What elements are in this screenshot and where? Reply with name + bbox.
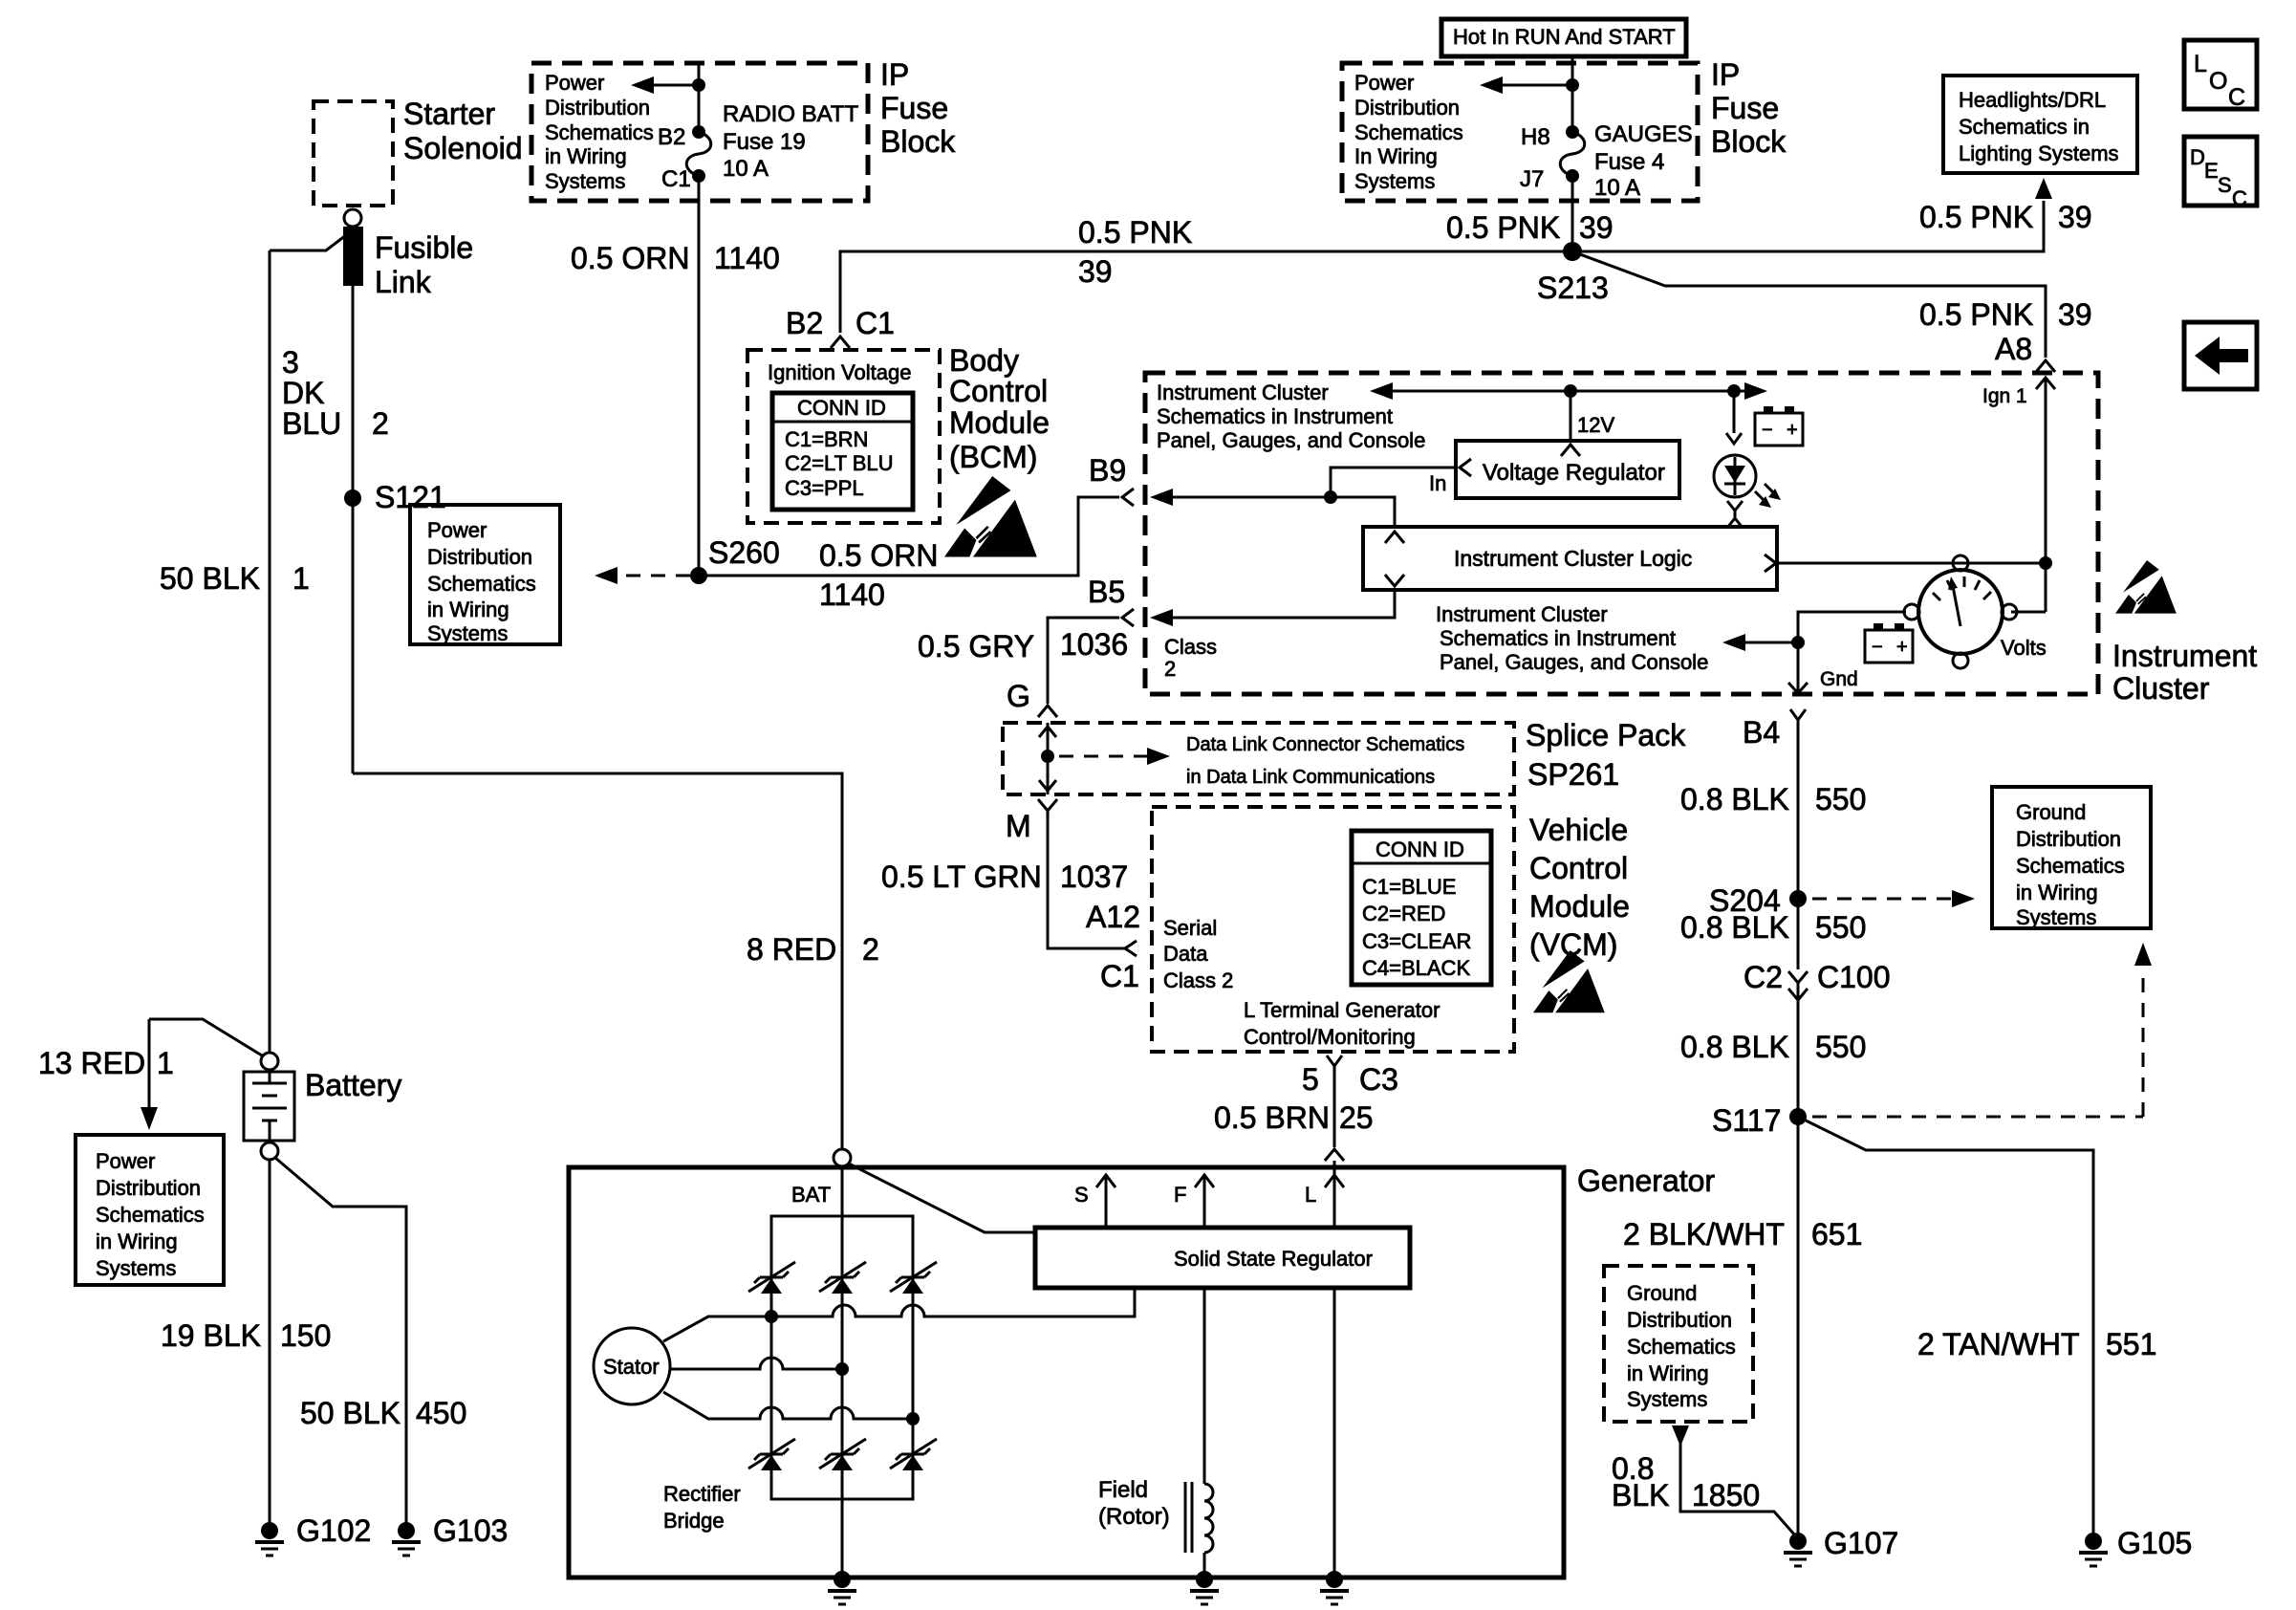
svg-text:1850: 1850 (1692, 1478, 1760, 1512)
svg-text:Schematics in: Schematics in (1959, 115, 2090, 139)
svg-text:C1=BRN: C1=BRN (785, 427, 868, 451)
svg-text:0.5 PNK: 0.5 PNK (1919, 200, 2033, 234)
wire 0.8 BLK 1850 (ground dist to G107) (1612, 1425, 1795, 1535)
svg-text:550: 550 (1815, 910, 1866, 945)
connector below LED (1727, 501, 1743, 528)
ESD symbol (instrument cluster) (2115, 560, 2177, 614)
svg-text:0.8 BLK: 0.8 BLK (1680, 782, 1789, 816)
fuse 19 (RADIO BATT 10A) (658, 101, 859, 192)
svg-text:12V: 12V (1577, 413, 1614, 437)
svg-text:550: 550 (1815, 782, 1866, 816)
svg-text:C4=BLACK: C4=BLACK (1362, 956, 1470, 980)
svg-text:0.5 ORN: 0.5 ORN (571, 241, 689, 275)
svg-text:C3=CLEAR: C3=CLEAR (1362, 929, 1471, 953)
svg-text:L: L (2194, 51, 2207, 77)
power distribution schematics box (S260) (410, 505, 560, 645)
svg-text:SP261: SP261 (1527, 757, 1619, 792)
svg-text:Field: Field (1098, 1477, 1148, 1503)
stator winding middle wire (670, 1358, 849, 1376)
ESD symbol (VCM) (1533, 950, 1605, 1012)
svg-text:Ign 1: Ign 1 (1982, 385, 2027, 407)
svg-text:C: C (2228, 84, 2245, 111)
svg-text:B2: B2 (786, 306, 823, 340)
svg-text:S260: S260 (708, 535, 780, 570)
svg-text:50 BLK: 50 BLK (160, 561, 260, 596)
starter solenoid terminal (344, 209, 361, 227)
svg-text:in Wiring: in Wiring (545, 144, 627, 168)
svg-text:C1=BLUE: C1=BLUE (1362, 875, 1456, 899)
svg-text:13 RED: 13 RED (38, 1046, 145, 1080)
wire volts gauge left terminal to Gnd (1798, 612, 1906, 691)
connector ICL bottom (1385, 575, 1404, 586)
svg-text:Starter: Starter (403, 97, 495, 131)
wire 2 TAN/WHT 551 (S117 to G105) (1798, 1117, 2156, 1533)
splice pack internal wire (1039, 723, 1056, 794)
wire 2 BLK/WHT 651 (S117 to G107) (1623, 1117, 1862, 1533)
LED telltale indicator (1714, 455, 1781, 508)
wire BAT center line (841, 1166, 844, 1577)
svg-text:in Wiring: in Wiring (2016, 881, 2098, 904)
svg-text:C: C (2232, 186, 2247, 210)
svg-text:(BCM): (BCM) (949, 440, 1037, 474)
svg-text:C2: C2 (1744, 960, 1783, 994)
wire to volts gauge right terminal (2011, 611, 2046, 614)
connector B5 (1122, 609, 1134, 626)
svg-text:+: + (1787, 420, 1798, 441)
ground distribution schematics box (bottom) (1604, 1266, 1753, 1422)
svg-text:L: L (1305, 1183, 1316, 1207)
svg-text:Generator: Generator (1577, 1164, 1715, 1198)
svg-text:J7: J7 (1520, 166, 1544, 192)
svg-text:A12: A12 (1086, 900, 1140, 934)
svg-text:0.5 LT GRN: 0.5 LT GRN (881, 859, 1042, 894)
svg-text:B9: B9 (1089, 453, 1126, 488)
back arrow box (2184, 322, 2257, 389)
svg-text:GAUGES: GAUGES (1594, 121, 1693, 147)
svg-text:IP: IP (1711, 57, 1740, 92)
node at fuse 4 feed (1566, 78, 1579, 92)
svg-text:39: 39 (2058, 200, 2092, 234)
svg-text:(Rotor): (Rotor) (1098, 1504, 1170, 1530)
wire BAT to solid state regulator (849, 1164, 1035, 1232)
svg-text:Fuse: Fuse (1711, 91, 1779, 125)
wire 0.5 PNK 39 (S213 to BCM) (840, 215, 1572, 333)
dashed wire S117 to ground distribution (1812, 943, 2152, 1117)
wire 3 DK BLU 2 (link to S121) (352, 286, 355, 773)
node S213 (1537, 242, 1609, 305)
svg-text:Distribution: Distribution (1627, 1308, 1732, 1332)
svg-text:RADIO BATT: RADIO BATT (723, 101, 859, 127)
connector G (1038, 706, 1057, 717)
svg-text:Headlights/DRL: Headlights/DRL (1959, 88, 2106, 112)
svg-text:1140: 1140 (819, 577, 885, 612)
zener diode top middle (819, 1262, 866, 1294)
connector 5 C3 (1302, 1055, 1398, 1097)
svg-text:0.5 PNK: 0.5 PNK (1078, 215, 1192, 250)
svg-text:G102: G102 (296, 1513, 371, 1548)
wire 0.5 ORN 1140 (fuse 19 to S260) (571, 176, 780, 576)
svg-text:Systems: Systems (1354, 169, 1435, 193)
node S260 (690, 535, 780, 584)
svg-text:0.8 BLK: 0.8 BLK (1680, 1030, 1789, 1064)
svg-text:Panel, Gauges, and Console: Panel, Gauges, and Console (1157, 428, 1425, 452)
svg-text:C1: C1 (856, 306, 895, 340)
IP fuse block 2 (dashed box) (1342, 57, 1787, 201)
svg-text:Systems: Systems (427, 621, 508, 645)
node ICL output to volts gauge (2039, 556, 2052, 570)
svg-text:0.5 GRY: 0.5 GRY (918, 629, 1034, 664)
ground distribution schematics box (right) (1992, 787, 2151, 929)
svg-text:Instrument: Instrument (2112, 639, 2257, 673)
svg-text:Link: Link (375, 265, 432, 299)
svg-text:39: 39 (1078, 254, 1113, 289)
svg-text:A8: A8 (1995, 332, 2032, 366)
svg-text:Fuse 4: Fuse 4 (1594, 149, 1664, 175)
svg-text:L Terminal Generator: L Terminal Generator (1244, 998, 1440, 1022)
wire hot feed stub (1571, 56, 1574, 132)
node SP261 junction (1041, 750, 1054, 763)
wire 0.5 PNK 39 (S213 to headlights) (1572, 178, 2092, 251)
svg-text:1: 1 (157, 1046, 174, 1080)
wire ICL to BCM B5 (Class 2) (1150, 589, 1395, 681)
svg-text:DK: DK (282, 376, 324, 410)
svg-text:in Wiring: in Wiring (96, 1229, 178, 1253)
svg-text:39: 39 (1579, 210, 1614, 245)
wire ignition feed double arrow inside cluster (1370, 382, 1767, 400)
svg-text:Block: Block (1711, 124, 1787, 159)
dashed arrow S204 to ground distribution (1812, 890, 1975, 907)
wire 0.5 GRY 1036 (BCM B5 to splice pack G) (918, 618, 1128, 713)
battery telltale icon (lower) (1865, 623, 1913, 663)
svg-text:150: 150 (280, 1318, 331, 1353)
connector ICL right (1765, 555, 1776, 572)
svg-text:in Data Link Communications: in Data Link Communications (1186, 767, 1435, 788)
node telltale feed (1727, 384, 1741, 398)
volts gauge (1904, 555, 2047, 668)
ground G107 (1784, 1526, 1898, 1566)
svg-text:1140: 1140 (714, 241, 780, 275)
svg-text:Voltage Regulator: Voltage Regulator (1483, 460, 1665, 486)
svg-text:Data: Data (1163, 942, 1208, 966)
node S117 (1712, 1103, 1807, 1138)
stator winding bottom wire (663, 1392, 920, 1425)
svg-text:Body: Body (949, 343, 1019, 378)
arrow to power distribution (fuse block 2) (1480, 76, 1572, 94)
svg-text:1037: 1037 (1060, 859, 1128, 894)
svg-text:Systems: Systems (545, 169, 625, 193)
svg-text:2: 2 (862, 932, 879, 967)
svg-text:B2: B2 (658, 124, 685, 150)
connector above telltale (1726, 433, 1742, 444)
svg-text:Systems: Systems (96, 1256, 176, 1280)
wire BCM B9 to ICL and VR In (1150, 468, 1457, 529)
instrument cluster label (2112, 639, 2257, 706)
node gnd branch (1791, 636, 1805, 649)
wire to telltale (1733, 391, 1736, 433)
svg-text:H8: H8 (1521, 124, 1550, 150)
svg-text:2 BLK/WHT: 2 BLK/WHT (1623, 1217, 1785, 1251)
svg-text:Solenoid: Solenoid (403, 131, 523, 165)
svg-text:In: In (1429, 471, 1446, 495)
instrument cluster logic (1363, 527, 1777, 590)
svg-text:Gnd: Gnd (1820, 668, 1858, 690)
svg-text:S117: S117 (1712, 1103, 1781, 1138)
pin F (1174, 1174, 1214, 1228)
solid state regulator (1035, 1228, 1410, 1288)
zener diode bottom right (890, 1439, 937, 1470)
svg-text:Splice Pack: Splice Pack (1526, 718, 1686, 752)
svg-text:Hot In RUN And START: Hot In RUN And START (1453, 25, 1676, 49)
node at 12V (1564, 384, 1577, 398)
svg-text:25: 25 (1339, 1100, 1374, 1135)
svg-text:Class 2: Class 2 (1163, 968, 1233, 992)
ground (L circuit) (1320, 1571, 1349, 1604)
generator box (569, 1164, 1715, 1577)
Hot In RUN And START box (1441, 19, 1686, 56)
ground G102 (255, 1513, 371, 1556)
Gnd arrow at cluster border (1788, 668, 1858, 693)
svg-text:In Wiring: In Wiring (1354, 144, 1438, 168)
svg-text:0.8 BLK: 0.8 BLK (1680, 910, 1789, 945)
svg-text:Power: Power (96, 1149, 155, 1173)
svg-text:Schematics in Instrument: Schematics in Instrument (1157, 404, 1393, 428)
svg-text:BLU: BLU (282, 406, 341, 441)
svg-text:G: G (1007, 679, 1030, 713)
svg-text:1: 1 (292, 561, 310, 596)
svg-text:Class: Class (1164, 635, 1217, 659)
svg-text:10 A: 10 A (723, 156, 769, 182)
svg-text:1036: 1036 (1060, 627, 1128, 662)
svg-text:BLK: BLK (1612, 1478, 1669, 1512)
svg-text:Schematics: Schematics (545, 120, 654, 144)
svg-text:Distribution: Distribution (1354, 96, 1460, 120)
svg-text:Cluster: Cluster (2112, 671, 2210, 706)
instrument cluster reference text (lower) (1436, 602, 1708, 674)
svg-text:450: 450 (416, 1396, 466, 1430)
svg-text:Power: Power (427, 518, 487, 542)
svg-text:S213: S213 (1537, 271, 1609, 305)
pin L (1305, 1174, 1344, 1228)
svg-text:Power: Power (545, 71, 604, 95)
connector at voltage regulator top (1561, 445, 1580, 456)
vehicle control module VCM (dashed box) (1152, 807, 1630, 1052)
svg-text:Power: Power (1354, 71, 1414, 95)
svg-text:10 A: 10 A (1594, 175, 1640, 201)
svg-text:Volts: Volts (2001, 636, 2047, 660)
svg-text:Distribution: Distribution (427, 545, 532, 569)
svg-text:Instrument Cluster: Instrument Cluster (1436, 602, 1608, 626)
node S121 (344, 480, 446, 514)
ground (field) (1190, 1571, 1219, 1604)
LOC box (2184, 40, 2257, 111)
svg-text:Fusible: Fusible (375, 230, 473, 265)
zener diode bottom middle (819, 1439, 866, 1470)
battery telltale icon (upper) (1755, 406, 1803, 446)
svg-text:19 BLK: 19 BLK (161, 1318, 261, 1353)
svg-text:Distribution: Distribution (96, 1176, 201, 1200)
power distribution schematics box (battery area) (76, 1135, 224, 1285)
svg-text:in Wiring: in Wiring (1627, 1361, 1709, 1385)
svg-text:651: 651 (1811, 1217, 1862, 1251)
fusible link (343, 227, 473, 299)
svg-text:C1: C1 (661, 166, 691, 192)
svg-text:Bridge: Bridge (663, 1509, 725, 1533)
svg-text:2: 2 (1164, 657, 1176, 681)
svg-text:C3=PPL: C3=PPL (785, 476, 864, 500)
svg-text:S: S (1074, 1183, 1089, 1207)
connector A12 C1 (1086, 900, 1140, 993)
svg-text:G105: G105 (2117, 1526, 2192, 1560)
wire 0.5 PNK 39 (fuse 4 to S213) (1446, 176, 1614, 251)
svg-text:5: 5 (1302, 1062, 1319, 1097)
svg-text:Module: Module (949, 405, 1050, 440)
svg-text:Ignition Voltage: Ignition Voltage (768, 360, 911, 384)
svg-text:0.5 PNK: 0.5 PNK (1919, 297, 2033, 332)
dashed arrow S260 to power distribution box (595, 567, 690, 584)
svg-text:C3: C3 (1359, 1062, 1398, 1097)
ESD symbol (BCM) (944, 476, 1037, 556)
svg-text:−: − (1872, 637, 1883, 658)
svg-text:B4: B4 (1743, 715, 1780, 750)
arrow to power distribution (fuse block 1) (631, 76, 699, 94)
svg-text:Ground: Ground (1627, 1281, 1697, 1305)
instrument cluster (dashed box) (1145, 373, 2098, 694)
svg-text:D: D (2190, 145, 2205, 169)
wire fuse 19 feed stub (698, 63, 701, 132)
svg-text:Distribution: Distribution (2016, 827, 2121, 851)
svg-text:Systems: Systems (2016, 905, 2096, 929)
BCM CONN ID table (772, 393, 913, 510)
ground G105 (2079, 1526, 2192, 1566)
BAT terminal (791, 1149, 851, 1207)
svg-text:Stator: Stator (603, 1355, 660, 1379)
rectifier bridge frame (663, 1216, 913, 1533)
ground (rectifier bridge) (828, 1571, 856, 1604)
connector A8 (2036, 360, 2055, 372)
connector B2 C1 at BCM (786, 306, 895, 348)
svg-text:B5: B5 (1088, 575, 1125, 609)
svg-text:Instrument Cluster: Instrument Cluster (1157, 381, 1329, 404)
connector M (1006, 799, 1057, 843)
body control module BCM (dashed box) (747, 343, 1050, 523)
svg-text:0.5 ORN: 0.5 ORN (819, 538, 938, 573)
field rotor coil (1098, 1288, 1213, 1577)
node at fuse 19 feed (692, 78, 705, 92)
svg-text:Block: Block (880, 124, 956, 159)
wire 0.8 BLK 550 (S204 to C100) (1680, 899, 1866, 969)
svg-text:Schematics: Schematics (1354, 120, 1463, 144)
svg-text:Vehicle: Vehicle (1529, 813, 1628, 847)
stator winding top wire to regulator (663, 1288, 1135, 1341)
svg-text:Rectifier: Rectifier (663, 1482, 741, 1506)
svg-text:Battery: Battery (305, 1068, 401, 1102)
svg-text:Schematics: Schematics (96, 1203, 205, 1227)
svg-text:M: M (1006, 809, 1031, 843)
node S204 (1709, 883, 1807, 918)
svg-text:Instrument Cluster Logic: Instrument Cluster Logic (1454, 546, 1692, 571)
svg-text:50 BLK: 50 BLK (300, 1396, 401, 1430)
svg-text:C100: C100 (1817, 960, 1891, 994)
svg-text:Data Link Connector Schematics: Data Link Connector Schematics (1186, 734, 1464, 755)
svg-text:Serial: Serial (1163, 916, 1217, 940)
wire ICL to Ign1 line (1777, 562, 2046, 565)
zener diode top left (748, 1262, 795, 1294)
wire 0.5 BRN 25 (VCM to generator L) (1214, 1066, 1374, 1147)
svg-text:39: 39 (2058, 297, 2092, 332)
starter solenoid (dashed box) (314, 97, 523, 206)
svg-text:IP: IP (880, 57, 909, 92)
svg-text:Fuse 19: Fuse 19 (723, 129, 806, 155)
svg-text:G103: G103 (433, 1513, 508, 1548)
svg-text:Control: Control (1529, 851, 1628, 885)
svg-text:551: 551 (2106, 1327, 2156, 1361)
splice pack SP261 (dashed box) (1003, 718, 1686, 794)
svg-text:E: E (2204, 159, 2219, 183)
wire 13 RED 1 with arrow to power distribution (38, 1019, 262, 1130)
svg-text:Panel, Gauges, and Console: Panel, Gauges, and Console (1440, 650, 1708, 674)
wire 0.5 PNK 39 (S213 to instrument cluster A8) (1572, 251, 2092, 366)
wire 0.5 ORN 1140 (S260 to BCM B9) (699, 497, 1119, 612)
dashed arrow to data link connector schematics (1059, 734, 1464, 788)
wire 8 RED 2 (S121 to generator BAT) (353, 773, 879, 1149)
zener diode top right (890, 1262, 937, 1294)
svg-text:C2=RED: C2=RED (1362, 902, 1445, 925)
headlights/DRL schematics box (1943, 76, 2137, 173)
DESC box (2184, 137, 2257, 210)
ground G103 (392, 1513, 508, 1556)
connector B9 (1122, 489, 1134, 506)
wire 0.5 LT GRN 1037 (SP261 to VCM A12) (881, 811, 1128, 948)
svg-text:Systems: Systems (1627, 1387, 1707, 1411)
wire fusible link tap to battery column (270, 235, 346, 250)
svg-text:O: O (2209, 68, 2227, 95)
svg-text:BAT: BAT (791, 1183, 831, 1207)
svg-text:Ground: Ground (2016, 800, 2086, 824)
svg-text:2 TAN/WHT: 2 TAN/WHT (1917, 1327, 2079, 1361)
svg-text:G107: G107 (1824, 1526, 1898, 1560)
voltage regulator (1456, 441, 1679, 498)
svg-text:C1: C1 (1100, 959, 1139, 993)
zener diode bottom left (748, 1439, 795, 1470)
wire L to generator ground (1333, 1288, 1336, 1577)
svg-text:S: S (2218, 173, 2232, 197)
wire Ign 1 (A8 into cluster) (1982, 378, 2055, 612)
fuse 4 (GAUGES 10A) (1520, 121, 1693, 201)
svg-text:C2=LT BLU: C2=LT BLU (785, 451, 894, 475)
connector at generator L (1325, 1149, 1344, 1161)
svg-text:Schematics: Schematics (427, 572, 536, 596)
svg-text:CONN ID: CONN ID (1375, 838, 1464, 861)
wire 50 BLK 1 (battery feed vertical) (269, 250, 271, 1053)
wire B4 550 (cluster Gnd to S204) (1680, 709, 1866, 892)
wire into generator L pin (1333, 1161, 1336, 1174)
connector In (1429, 459, 1471, 495)
svg-text:Schematics: Schematics (1627, 1335, 1736, 1359)
svg-text:Control/Monitoring: Control/Monitoring (1244, 1025, 1416, 1049)
svg-text:Distribution: Distribution (545, 96, 650, 120)
svg-text:Solid State Regulator: Solid State Regulator (1174, 1247, 1373, 1271)
battery (244, 1053, 401, 1160)
svg-text:3: 3 (282, 345, 299, 380)
svg-text:Schematics in Instrument: Schematics in Instrument (1440, 626, 1676, 650)
svg-text:CONN ID: CONN ID (797, 396, 886, 420)
svg-text:8 RED: 8 RED (747, 932, 836, 967)
svg-text:in Wiring: in Wiring (427, 598, 509, 621)
svg-text:Module: Module (1529, 889, 1630, 924)
svg-text:−: − (1762, 420, 1773, 441)
VCM CONN ID table (1352, 831, 1491, 985)
svg-text:Lighting Systems: Lighting Systems (1959, 141, 2119, 165)
